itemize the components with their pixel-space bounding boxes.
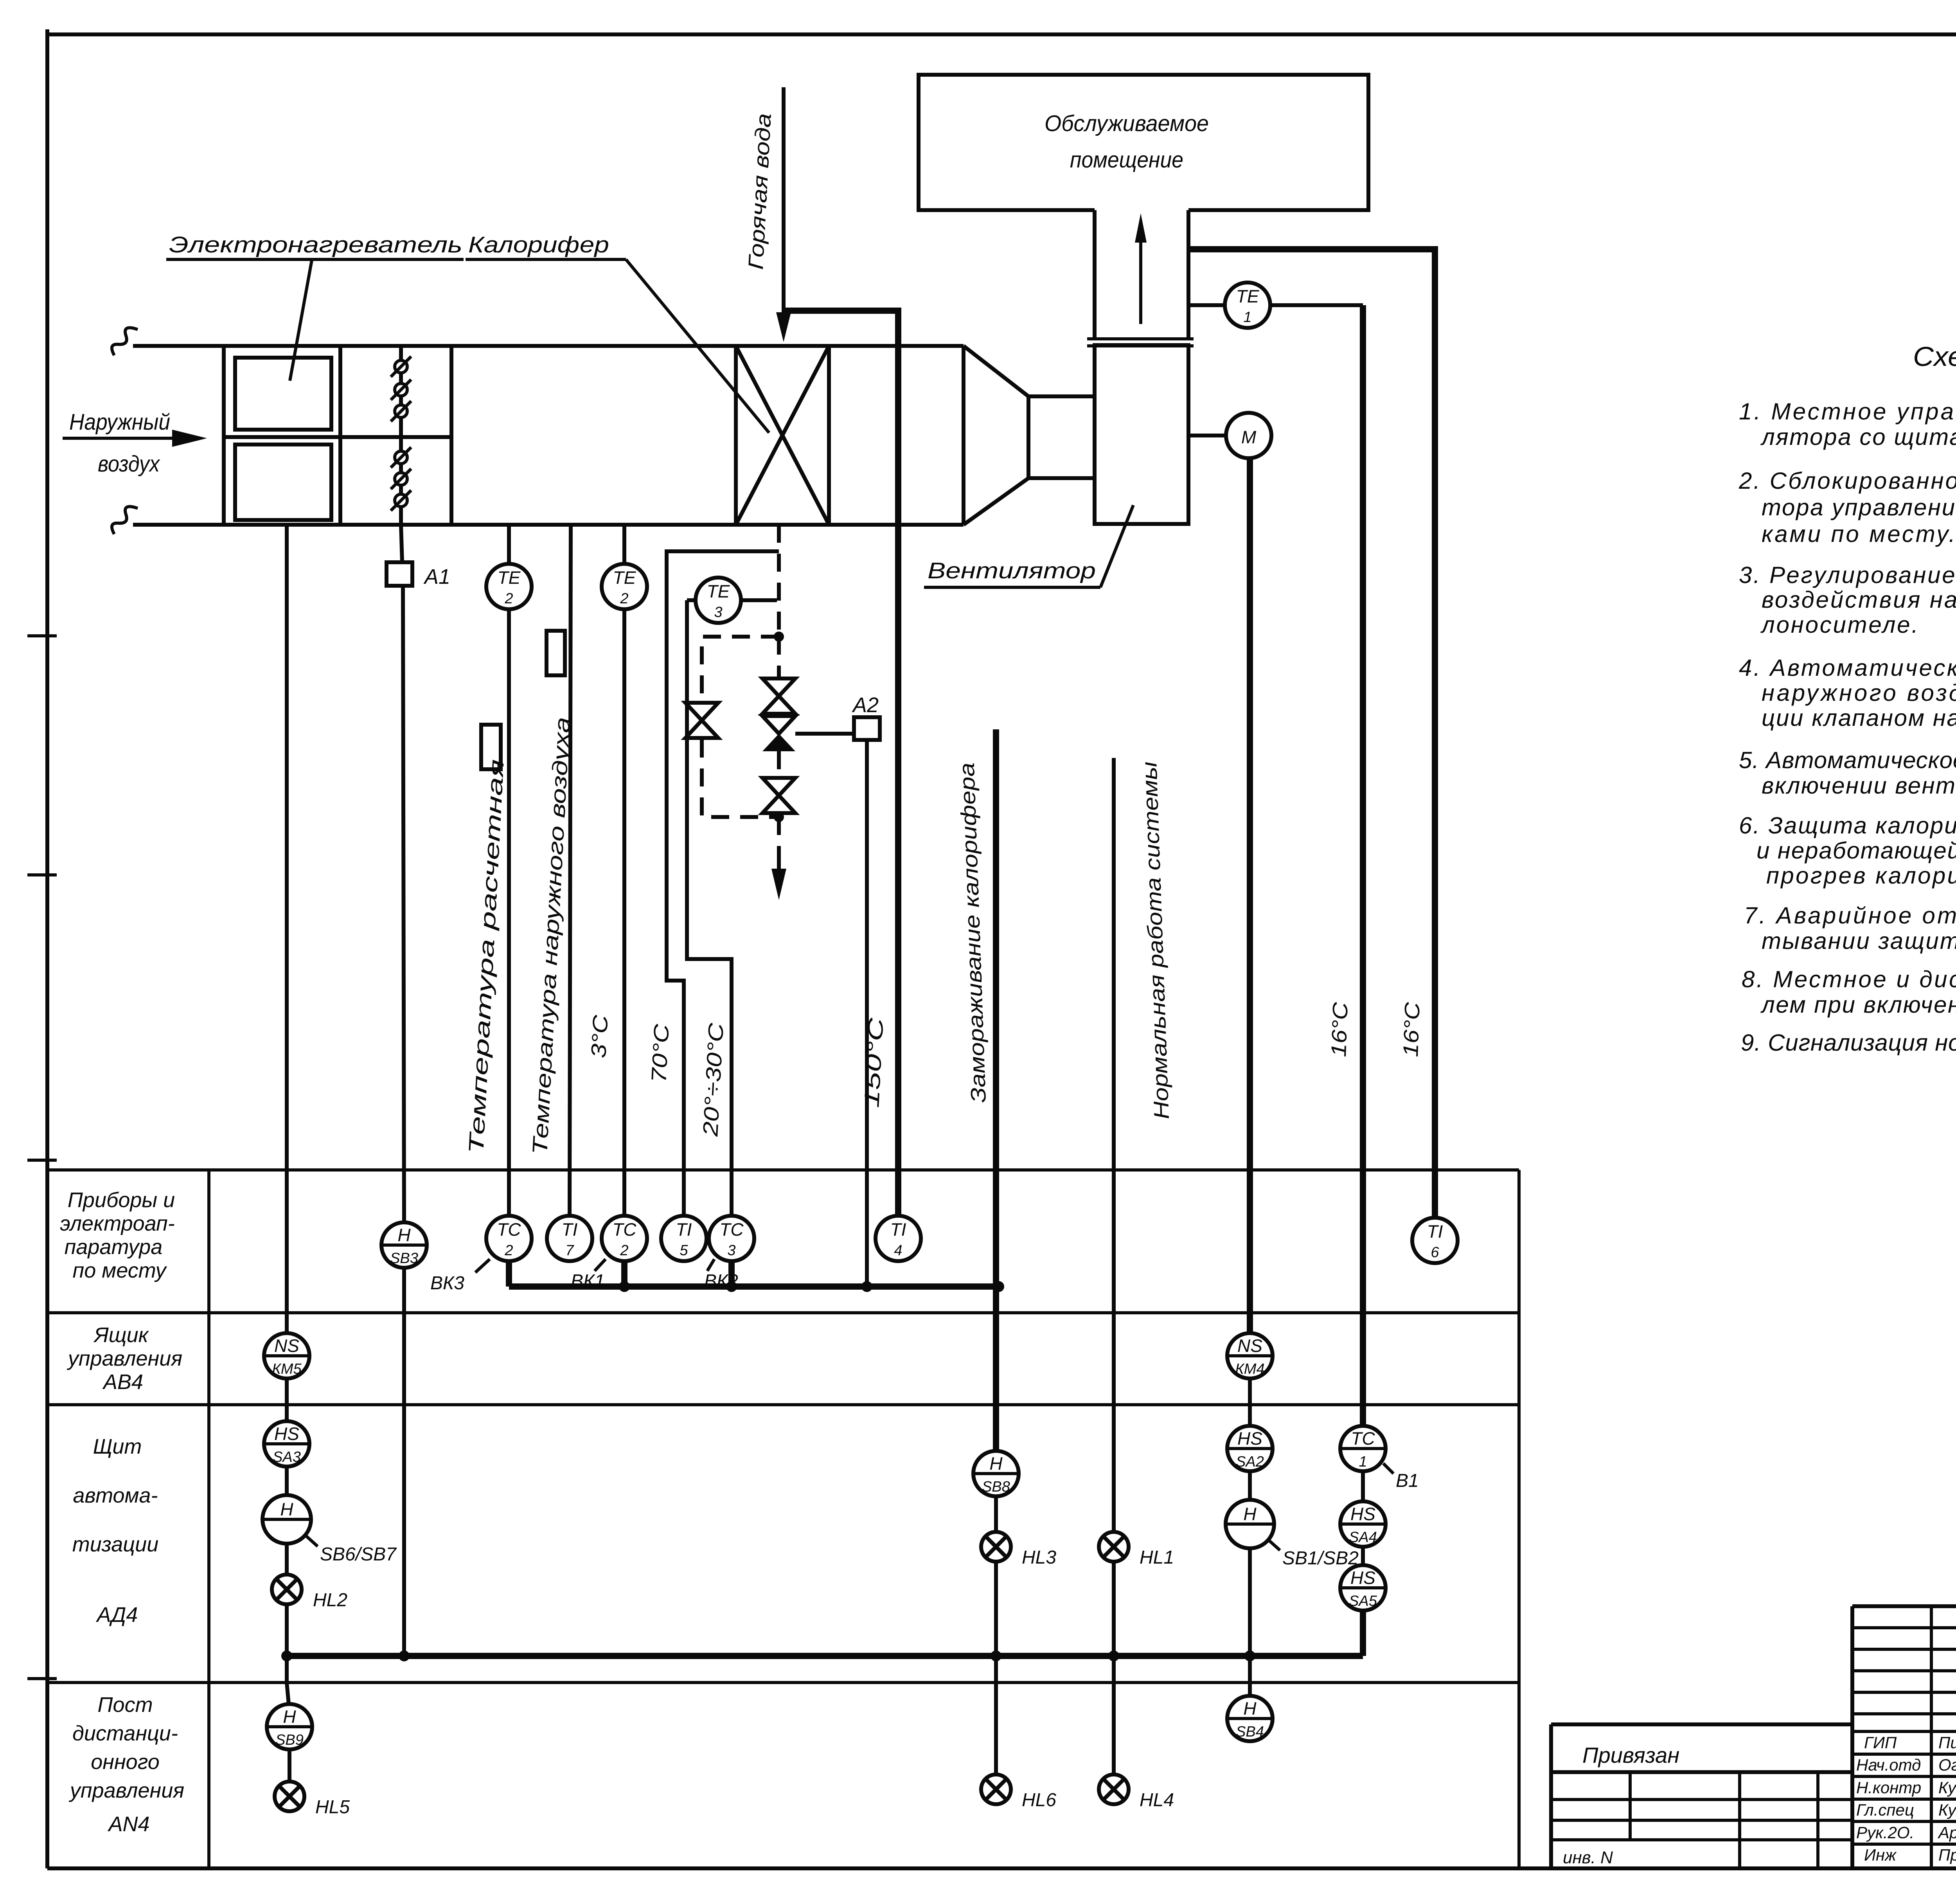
riser flange line 2 — [1087, 344, 1194, 347]
title block outer top — [1852, 1604, 1956, 1608]
svg-text:Пивторак: Пивторак — [1938, 1733, 1956, 1752]
location table row line 3 — [47, 1403, 1519, 1406]
wire HL1 line to HL4 — [1112, 1656, 1116, 1774]
wire HL3 to bus — [994, 1562, 998, 1656]
duct bottom break squiggle — [112, 507, 138, 534]
node upper manifold — [774, 632, 784, 642]
junction dot HL1 line — [1108, 1650, 1119, 1661]
duct bottom wall — [133, 523, 964, 527]
svg-text:ТС: ТС — [497, 1219, 521, 1240]
svg-text:SB9: SB9 — [275, 1732, 304, 1748]
svg-text:Н: Н — [397, 1225, 411, 1245]
wire TE3 right connector — [741, 598, 777, 602]
damper blade 3 — [391, 401, 411, 421]
wire chain KM5 to SA3 — [285, 1379, 289, 1421]
instrument TC2 — [486, 1216, 532, 1261]
svg-text:Н: Н — [1243, 1504, 1257, 1524]
wire heat medium branch to TI5 — [667, 551, 779, 1216]
page border bottom — [47, 1866, 1956, 1870]
svg-text:КМ4: КМ4 — [1235, 1361, 1264, 1377]
svg-text:управления: управления — [67, 1347, 182, 1370]
damper stem — [399, 346, 403, 525]
svg-text:SА4: SА4 — [1349, 1529, 1377, 1546]
fan leader — [1100, 505, 1133, 587]
label SB1 SB2 — [1269, 1540, 1280, 1550]
wire freeze signal to H SB8 (bold) — [993, 729, 999, 1451]
svg-text:помещение: помещение — [1070, 147, 1183, 173]
controller TC1 — [1340, 1426, 1386, 1471]
svg-text:Н: Н — [989, 1453, 1003, 1474]
wire manifold main upper (dashed) — [777, 637, 781, 678]
instrument TC2b — [602, 1216, 647, 1261]
starter NS KM5 — [264, 1333, 309, 1379]
border tick 2 — [27, 873, 57, 876]
TE1 left connector — [1188, 303, 1225, 307]
page border left — [45, 29, 49, 1868]
svg-text:HS: HS — [1237, 1428, 1262, 1449]
svg-text:ками по месту.: ками по месту. — [1762, 521, 1955, 547]
border tick 1 — [27, 634, 57, 637]
svg-text:NS: NS — [1237, 1335, 1262, 1356]
wire damper stem to actuator A1 — [401, 525, 402, 562]
svg-text:Приборы и: Приборы и — [68, 1188, 175, 1212]
svg-text:АВ4: АВ4 — [102, 1370, 143, 1394]
instrument TI6 — [1412, 1218, 1458, 1263]
wire SA2 to SB1 — [1248, 1471, 1252, 1500]
border tick 4 — [27, 1677, 57, 1680]
switch HS SA4 — [1340, 1501, 1386, 1547]
svg-text:2: 2 — [504, 590, 513, 607]
junction dot A2 line — [861, 1281, 872, 1292]
svg-text:АN4: АN4 — [107, 1812, 149, 1836]
svg-text:Н.контр: Н.контр — [1856, 1778, 1921, 1797]
junction dot freeze line — [993, 1281, 1004, 1292]
svg-text:КМ5: КМ5 — [272, 1361, 302, 1377]
TE1 right connector — [1270, 303, 1363, 307]
wire HL2 to bus — [285, 1604, 289, 1683]
svg-text:автома-: автома- — [73, 1484, 158, 1507]
sensor pocket on outdoor line — [547, 631, 565, 675]
svg-text:1: 1 — [1243, 309, 1251, 326]
wire leftmost chain from duct — [285, 525, 289, 1333]
sensor pocket on line TC2 — [481, 725, 501, 769]
svg-text:3°С: 3°С — [587, 1014, 613, 1058]
sensor TE3 — [696, 578, 741, 623]
cone outlet plane — [1027, 396, 1030, 478]
bypass branch (dashed) — [702, 637, 779, 817]
svg-text:Пост: Пост — [97, 1693, 153, 1717]
title block left edge — [1850, 1606, 1854, 1868]
binding rows — [1551, 1800, 1854, 1840]
svg-text:SА3: SА3 — [273, 1449, 301, 1465]
electric heater leader — [290, 260, 312, 381]
svg-text:воздух: воздух — [98, 451, 160, 477]
svg-text:HS: HS — [1350, 1567, 1375, 1588]
lamp HL6 — [981, 1774, 1011, 1804]
svg-text:лем при включении приточно: лем при включении приточного вентилятора… — [1760, 992, 1956, 1018]
wire HL1 to bus — [1112, 1562, 1116, 1656]
wire HL3 line to HL6 — [994, 1656, 998, 1774]
riser duct right wall — [1187, 210, 1190, 339]
wire SB8 to HL3 — [994, 1496, 998, 1532]
svg-text:ции клапаном наружного возд: ции клапаном наружного воздуха. — [1762, 705, 1956, 731]
binding table outer — [1551, 1724, 1854, 1868]
wire outdoor air temp line to TI7 — [570, 525, 571, 1216]
svg-text:3. Регулирование температуры: 3. Регулирование температуры приточного … — [1739, 562, 1956, 588]
transition cone bottom — [964, 478, 1028, 525]
wire SB6 to HL2 — [285, 1544, 289, 1575]
svg-text:Кузнецов: Кузнецов — [1938, 1778, 1956, 1797]
svg-text:ТЕ: ТЕ — [1236, 286, 1260, 306]
svg-text:ТЕ: ТЕ — [498, 567, 521, 588]
location table label column — [207, 1170, 210, 1868]
damper section right wall — [449, 346, 453, 525]
wire SA4 to SA5 — [1361, 1547, 1365, 1565]
svg-text:и неработающей системе и: и неработающей системе и автоматический … — [1756, 837, 1956, 864]
svg-text:лоносителе.: лоносителе. — [1760, 612, 1918, 638]
junction dot left chain — [281, 1650, 292, 1661]
wire KM4 to SA2 — [1248, 1379, 1252, 1426]
svg-text:4: 4 — [894, 1242, 902, 1259]
electric heater lower element box — [235, 445, 331, 520]
heat medium pipe from duct (dashed) — [777, 525, 781, 637]
svg-text:SB4: SB4 — [1236, 1724, 1264, 1740]
riser air arrow — [1139, 235, 1142, 324]
calorifer label underline — [466, 258, 626, 261]
wire TC1 to SA4 — [1361, 1471, 1365, 1501]
wire supply air temp to TI6 (bold) — [1188, 249, 1435, 1218]
sensor TE1 — [1225, 283, 1270, 328]
svg-text:Кузнецов: Кузнецов — [1938, 1801, 1956, 1819]
button H SB9 — [267, 1704, 312, 1749]
wire TE1 to TC1 (bold) — [1360, 305, 1366, 1426]
fan box — [1095, 345, 1188, 524]
svg-text:SА2: SА2 — [1236, 1454, 1264, 1470]
svg-text:6. Защита калорифера от: 6. Защита калорифера от замораживания пр… — [1739, 812, 1956, 839]
svg-text:SА5: SА5 — [1349, 1593, 1377, 1609]
damper blade 2 — [391, 380, 411, 400]
svg-text:3: 3 — [714, 604, 722, 621]
damper blade 5 — [391, 469, 411, 489]
wire SB3 line to bus — [402, 1268, 406, 1656]
svg-text:инв. N: инв. N — [1563, 1848, 1613, 1867]
heater coil diagonal 2 — [736, 346, 829, 525]
wire chain to SB9 — [287, 1683, 289, 1704]
svg-text:Привязан: Привязан — [1582, 1743, 1679, 1767]
instrument TI7 — [547, 1216, 592, 1261]
hot water pipe — [782, 87, 786, 318]
duct end wall — [962, 346, 965, 525]
wire SA5 to bus — [1360, 1611, 1366, 1656]
wire TE3 to TC3 — [687, 600, 732, 1216]
heat medium outlet (dashed with arrow) — [777, 817, 781, 851]
damper blade 4 — [391, 447, 411, 468]
heater coil diagonal 1 — [736, 346, 829, 525]
instrument TI4 — [876, 1216, 921, 1261]
lamp HL1 — [1099, 1532, 1129, 1562]
actuator A2 — [854, 717, 880, 740]
svg-text:В1: В1 — [1396, 1470, 1419, 1491]
location table row line 4 — [47, 1681, 1519, 1684]
svg-text:Вентилятор: Вентилятор — [928, 558, 1096, 583]
svg-text:HS: HS — [1350, 1504, 1375, 1524]
signal bus lower — [287, 1653, 1363, 1659]
label SB6 SB7 — [306, 1536, 318, 1546]
button H SB1 SB2 — [1226, 1500, 1274, 1548]
svg-text:HL2: HL2 — [313, 1590, 347, 1611]
button H SB8 — [973, 1451, 1019, 1496]
svg-text:6: 6 — [1431, 1244, 1439, 1261]
damper blade 6 — [391, 490, 411, 511]
duct top break squiggle — [112, 328, 138, 355]
wire SB9 to HL5 — [288, 1749, 291, 1782]
svg-text:Н: Н — [283, 1706, 296, 1727]
lamp HL2 — [272, 1575, 302, 1604]
svg-text:2: 2 — [620, 590, 628, 607]
motor M — [1226, 413, 1271, 458]
svg-text:HL6: HL6 — [1022, 1790, 1056, 1810]
border tick 3 — [27, 1159, 57, 1162]
heater coil (calorifer) box left — [734, 346, 738, 525]
button H SB3 — [381, 1222, 427, 1268]
svg-text:Ящик: Ящик — [93, 1323, 149, 1347]
svg-text:ВК3: ВК3 — [430, 1273, 464, 1294]
svg-text:ТЕ: ТЕ — [707, 581, 730, 601]
wire SA3 to SB6 — [285, 1467, 289, 1495]
served room box — [919, 75, 1368, 210]
svg-text:тизации: тизации — [72, 1533, 158, 1556]
svg-text:ТЕ: ТЕ — [613, 567, 636, 588]
svg-text:Щит: Щит — [93, 1435, 142, 1458]
button H SB6 SB7 — [262, 1495, 311, 1544]
location table top line — [47, 1168, 1519, 1172]
svg-text:тывании защиты от заморажи: тывании защиты от замораживания. — [1762, 928, 1956, 954]
svg-text:7: 7 — [565, 1242, 574, 1259]
wire TE2b stem — [622, 525, 626, 564]
wire SB1 to bus — [1248, 1548, 1252, 1656]
junction dot SB3 line — [399, 1650, 410, 1661]
electric heater section right wall — [338, 346, 342, 525]
svg-text:Гл.спец: Гл.спец — [1856, 1801, 1914, 1819]
lamp HL3 — [981, 1532, 1011, 1562]
svg-text:ТI: ТI — [890, 1219, 906, 1240]
wire hot water temp to TI4 (bold) — [784, 311, 898, 1216]
svg-text:Инж: Инж — [1864, 1846, 1897, 1864]
svg-text:HL3: HL3 — [1022, 1547, 1056, 1568]
title rows left — [1852, 1628, 1956, 1844]
svg-text:А1: А1 — [423, 565, 450, 588]
svg-text:онного: онного — [91, 1750, 160, 1774]
wire TE2b to TC2b — [622, 609, 626, 1216]
sensor TE2b — [602, 564, 647, 609]
svg-text:Проймкина: Проймкина — [1938, 1846, 1956, 1864]
svg-text:5. Автоматическое подключени: 5. Автоматическое подключение системы ре… — [1739, 747, 1956, 773]
connector duct top — [1028, 394, 1095, 398]
valve bypass — [685, 703, 718, 738]
svg-text:2. Сблокированное с электро: 2. Сблокированное с электродвигателем пр… — [1738, 468, 1956, 494]
svg-text:3: 3 — [727, 1242, 735, 1259]
switch HS SA5 — [1340, 1565, 1386, 1611]
junction dot KM4 line — [1244, 1650, 1255, 1661]
wire TE2a stem — [507, 525, 511, 564]
svg-text:1. Местное управление электр: 1. Местное управление электродвигателем … — [1739, 398, 1956, 425]
switch HS SA3 — [264, 1421, 309, 1467]
electric heater upper element box — [235, 358, 331, 430]
svg-text:SB1/SB2: SB1/SB2 — [1282, 1548, 1359, 1569]
instrument TC3 — [709, 1216, 754, 1261]
svg-text:по месту: по месту — [73, 1259, 167, 1282]
control valve with actuator — [762, 716, 795, 734]
svg-text:управления: управления — [68, 1779, 184, 1802]
svg-text:Калорифер: Калорифер — [468, 232, 609, 257]
fan label underline — [924, 586, 1100, 589]
svg-text:16°С: 16°С — [1399, 1001, 1424, 1057]
svg-text:150°С: 150°С — [860, 1017, 888, 1108]
junction dot HL3 line — [991, 1650, 1001, 1661]
svg-text:1: 1 — [1359, 1454, 1367, 1470]
svg-text:Нач.отд: Нач.отд — [1856, 1756, 1921, 1774]
wire fan motor M down to NS KM4 (bold) — [1247, 458, 1253, 1333]
damper blade 1 — [391, 356, 411, 377]
lamp HL5 — [275, 1782, 304, 1811]
binding label row line — [1551, 1770, 1854, 1774]
duct top wall — [133, 344, 964, 348]
svg-text:АД4: АД4 — [96, 1603, 138, 1627]
svg-text:5: 5 — [680, 1242, 688, 1259]
svg-text:Рук.2О.: Рук.2О. — [1856, 1823, 1914, 1842]
electric heater label underline — [166, 258, 464, 261]
svg-text:воздействия на исполнительны: воздействия на исполнительный механизм к… — [1762, 587, 1956, 613]
svg-text:HL1: HL1 — [1140, 1547, 1174, 1568]
svg-text:ТI: ТI — [1427, 1221, 1443, 1242]
interlock bus — [509, 1283, 999, 1290]
valve upper — [762, 678, 795, 714]
svg-text:70°С: 70°С — [647, 1023, 674, 1083]
wire TE3 left connector — [687, 598, 696, 602]
calorifer leader — [626, 259, 769, 433]
svg-text:Электронагреватель: Электронагреватель — [169, 232, 462, 257]
svg-text:HS: HS — [274, 1424, 299, 1444]
svg-text:HL5: HL5 — [315, 1797, 350, 1818]
svg-text:Обслуживаемое: Обслуживаемое — [1045, 111, 1209, 136]
svg-text:Н: Н — [1243, 1698, 1257, 1719]
svg-text:SB8: SB8 — [982, 1479, 1010, 1495]
binding cols — [1630, 1772, 1818, 1868]
transition cone top — [964, 346, 1028, 396]
svg-text:Н: Н — [280, 1499, 293, 1519]
svg-text:ТI: ТI — [562, 1219, 578, 1240]
svg-text:NS: NS — [274, 1335, 299, 1356]
svg-text:ГИП: ГИП — [1864, 1733, 1897, 1752]
starter NS KM4 — [1227, 1333, 1273, 1379]
electric heater section left wall — [222, 346, 226, 525]
svg-text:электроап-: электроап- — [60, 1212, 175, 1235]
svg-text:16°С: 16°С — [1327, 1001, 1352, 1057]
location table row line 2 — [47, 1311, 1519, 1314]
svg-text:HL4: HL4 — [1140, 1790, 1174, 1810]
title col role — [1930, 1606, 1933, 1868]
node lower manifold — [774, 812, 784, 822]
svg-text:Схемой предусматривается:: Схемой предусматривается: — [1913, 341, 1956, 372]
svg-text:ТС: ТС — [612, 1219, 636, 1240]
wire A1 down to H SB3 — [403, 586, 404, 1222]
junction dot TC2b — [619, 1281, 630, 1292]
label B1 — [1383, 1463, 1393, 1474]
svg-text:8. Местное и дистанционное: 8. Местное и дистанционное управление эл… — [1742, 966, 1956, 992]
wire between valves — [777, 714, 781, 717]
svg-text:паратура: паратура — [65, 1235, 163, 1259]
connector duct bottom — [1028, 476, 1095, 480]
motor connector — [1188, 434, 1226, 437]
svg-text:ТI: ТI — [676, 1219, 692, 1240]
wire A2 to interlock bus — [865, 740, 869, 1287]
svg-text:Наружный: Наружный — [69, 409, 170, 435]
svg-text:ТС: ТС — [719, 1219, 744, 1240]
svg-text:4. Автоматическое ограничени: 4. Автоматическое ограничение расхода те… — [1739, 655, 1956, 681]
riser duct left wall — [1093, 210, 1097, 339]
riser flange line 1 — [1087, 337, 1194, 340]
svg-text:М: М — [1241, 427, 1257, 447]
svg-text:А2: А2 — [852, 693, 879, 717]
wire TC2 stub to interlock bus — [506, 1261, 512, 1287]
wire control valve to actuator A2 — [795, 732, 854, 736]
wire TE2a to TC2 — [507, 609, 511, 1216]
wire normal operation to HL1 — [1112, 758, 1116, 1532]
instrument TI5 — [661, 1216, 707, 1261]
duct mid line — [224, 435, 451, 439]
junction dot TC3 — [726, 1281, 737, 1292]
svg-text:дистанци-: дистанци- — [72, 1722, 178, 1745]
wire TC3 stub — [728, 1261, 735, 1287]
wire KM4 line to SB4 — [1248, 1656, 1252, 1696]
svg-text:лятора со щита автоматизации: лятора со щита автоматизации и дистанцио… — [1760, 424, 1956, 450]
outside air arrow — [63, 437, 176, 440]
button H SB4 — [1227, 1696, 1273, 1741]
svg-text:2: 2 — [620, 1242, 628, 1259]
location table right edge — [1517, 1170, 1521, 1868]
svg-text:ТС: ТС — [1351, 1428, 1375, 1449]
wire control valve to lower valve (dashed) — [777, 751, 781, 778]
lamp HL4 — [1099, 1774, 1129, 1804]
svg-text:Арнаутова: Арнаутова — [1937, 1823, 1956, 1842]
svg-text:2: 2 — [504, 1242, 513, 1259]
page border top — [47, 32, 1956, 36]
svg-text:SB3: SB3 — [390, 1250, 418, 1267]
switch HS SA2 — [1227, 1426, 1273, 1471]
sensor TE2a — [486, 564, 532, 609]
actuator A1 — [387, 562, 412, 586]
svg-text:Огурцов: Огурцов — [1938, 1756, 1956, 1774]
svg-text:9. Сигнализация нормальной: 9. Сигнализация нормальной работы приточ… — [1741, 1029, 1956, 1056]
svg-text:SB6/SB7: SB6/SB7 — [320, 1544, 397, 1565]
wire TC2b stub — [621, 1261, 627, 1287]
valve lower — [762, 778, 795, 813]
heater coil box right — [827, 346, 831, 525]
